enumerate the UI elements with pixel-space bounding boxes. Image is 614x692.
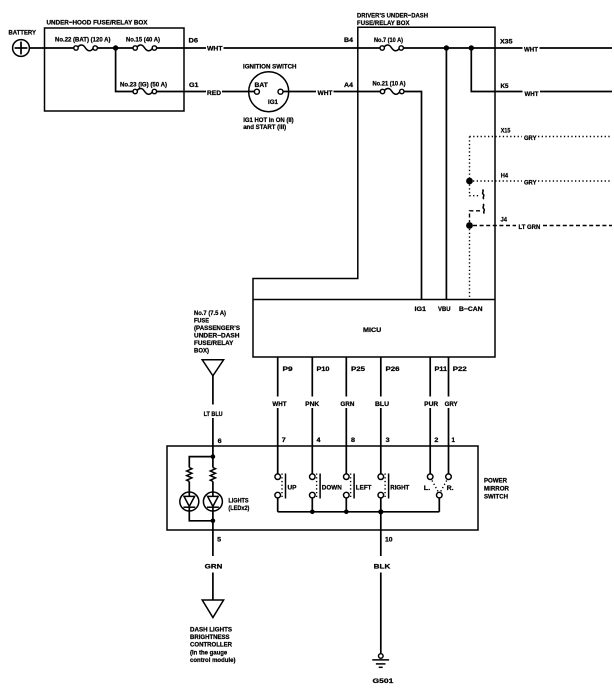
svg-text:No.21 (10 A): No.21 (10 A) (373, 81, 406, 88)
svg-text:WHT: WHT (272, 401, 286, 408)
wire battery to under-hood box (29, 47, 74, 49)
svg-text:WHT: WHT (525, 91, 539, 98)
svg-text:(LEDx2): (LEDx2) (228, 505, 249, 512)
svg-text:J4: J4 (501, 216, 508, 223)
svg-text:L.: L. (424, 485, 431, 492)
wire G1 to RED label (184, 91, 206, 93)
junction K5 tap (469, 45, 474, 50)
wire P9 output (277, 357, 279, 397)
svg-text:7: 7 (282, 437, 287, 444)
svg-text:P26: P26 (386, 366, 401, 373)
svg-text:PUR: PUR (424, 401, 438, 408)
svg-text:DOWN: DOWN (322, 485, 342, 492)
svg-text:FUSE/RELAY: FUSE/RELAY (194, 340, 234, 347)
svg-text:LIGHTS: LIGHTS (228, 497, 248, 504)
svg-text:P11: P11 (435, 366, 448, 373)
driver's under-dash fuse/relay box (outline merges with MICU section) (253, 13, 495, 358)
wire X15 GRY dotted to page edge (538, 136, 612, 138)
wire J4 LT GRN dashed to page edge (543, 225, 612, 227)
svg-text:D6: D6 (189, 38, 199, 45)
label POWER MIRROR SWITCH (484, 477, 509, 500)
wire dotted stub below H4 with break (470, 185, 481, 196)
svg-text:UNDER−DASH: UNDER−DASH (194, 333, 240, 340)
svg-text:R.: R. (447, 485, 454, 492)
svg-text:1: 1 (452, 437, 456, 444)
svg-text:LT BLU: LT BLU (204, 411, 223, 418)
wire LED right down (212, 507, 214, 521)
svg-text:BRIGHTNESS: BRIGHTNESS (190, 634, 230, 641)
wire RED to ignition switch BAT terminal (222, 91, 255, 93)
svg-text:G501: G501 (373, 678, 394, 685)
wire RIGHT bottom to bus (380, 498, 382, 512)
wire fuse23 to box edge (157, 91, 184, 93)
power mirror switch box (167, 446, 478, 530)
svg-text:(PASSENGER’S: (PASSENGER’S (194, 325, 240, 332)
wire DOWN bottom to bus (311, 498, 313, 512)
svg-text:IG1: IG1 (415, 306, 427, 313)
switch L/R selector (424, 474, 454, 498)
svg-text:POWER: POWER (484, 477, 507, 484)
switch RIGHT (378, 474, 409, 499)
fuse No.21 (10 A) (373, 81, 406, 95)
svg-text:UNDER−HOOD FUSE/RELAY BOX: UNDER−HOOD FUSE/RELAY BOX (47, 20, 149, 27)
wire fuse21 to IG1 input (404, 92, 422, 300)
svg-text:DASH LIGHTS: DASH LIGHTS (190, 626, 232, 633)
switch UP (275, 474, 297, 499)
wire pin 10 drop (380, 512, 382, 556)
junction lamp return (211, 519, 216, 524)
fuse No.15 (40 A) (126, 37, 160, 51)
label LIGHTS (LEDx2) (228, 497, 249, 512)
svg-text:MICU: MICU (363, 327, 382, 334)
label DASH LIGHTS BRIGHTNESS CONTROLLER (190, 626, 236, 664)
LED left (180, 492, 199, 511)
svg-text:10: 10 (385, 537, 393, 544)
svg-text:control module): control module) (190, 657, 236, 664)
svg-text:H4: H4 (501, 172, 509, 179)
svg-text:BATTERY: BATTERY (9, 30, 37, 37)
wire common bus (278, 511, 440, 513)
terminal IG1 (278, 89, 283, 94)
svg-text:FUSE/RELAY BOX: FUSE/RELAY BOX (357, 20, 410, 27)
svg-text:WHT: WHT (524, 47, 538, 54)
break squiggle lower (483, 204, 484, 214)
svg-text:BLK: BLK (374, 563, 391, 570)
svg-text:LEFT: LEFT (356, 485, 372, 492)
svg-text:X15: X15 (501, 128, 511, 135)
wire pin10 to ground (380, 573, 382, 654)
svg-text:IGNITION SWITCH: IGNITION SWITCH (243, 64, 297, 71)
wire WHT to driver's box B4 (224, 47, 358, 49)
svg-text:DRIVER’S UNDER−DASH: DRIVER’S UNDER−DASH (357, 13, 428, 20)
wire X35 WHT to page edge (540, 47, 613, 49)
wire P22 output (448, 357, 450, 397)
wire fuse15 to box edge (157, 47, 184, 49)
svg-text:P25: P25 (351, 366, 366, 373)
svg-text:MIRROR: MIRROR (484, 485, 509, 492)
wire B4 box edge to fuse7 (358, 47, 380, 49)
wire right lamp branch (212, 457, 214, 468)
fuse No.22 (BAT) (120 A) (55, 37, 111, 51)
junction J4 (466, 222, 473, 229)
wire UP bottom to bus (277, 498, 279, 512)
battery BATTERY (9, 30, 37, 57)
svg-text:IG1 HOT in ON (II): IG1 HOT in ON (II) (243, 117, 294, 124)
wire IG1 terminal to WHT label (283, 91, 316, 93)
svg-text:RED: RED (207, 90, 221, 97)
ignition switch (243, 64, 297, 132)
wire dashed stub above J4 (470, 211, 481, 222)
svg-text:GRN: GRN (340, 401, 354, 408)
svg-text:P10: P10 (317, 366, 331, 373)
resistor (right lamp) (210, 468, 215, 482)
wire pin 5 drop (212, 521, 214, 556)
junction bus at LEFT (344, 510, 349, 515)
svg-text:B−CAN: B−CAN (459, 306, 483, 313)
junction node (feed to No.23) (113, 45, 118, 50)
svg-text:3: 3 (386, 437, 391, 444)
svg-text:RIGHT: RIGHT (390, 485, 409, 492)
junction bus at pin 10 (378, 509, 383, 514)
op-amp MICU terminals (363, 306, 483, 334)
resistor (left lamp) (187, 468, 192, 482)
LED right (203, 492, 222, 511)
break squiggle upper (483, 190, 484, 200)
svg-text:BOX): BOX) (194, 348, 209, 355)
wire LT BLU from triangle to switch pin 6 (212, 376, 214, 405)
wire J4 dashed to LT GRN label (473, 225, 516, 227)
wire K5 branch (471, 48, 495, 92)
wire selector common to bus (438, 498, 440, 512)
svg-text:(In the gauge: (In the gauge (190, 649, 228, 656)
wire K5 WHT to page edge (540, 91, 612, 93)
wire B-CAN dotted drop to MICU (469, 229, 471, 300)
wire P26 output (380, 357, 382, 397)
wire H4 dotted to GRY label (473, 180, 522, 182)
wire LEFT bottom to bus (345, 498, 347, 512)
svg-text:GRY: GRY (524, 179, 537, 186)
junction pin6 split (211, 454, 216, 459)
junction VBU tap (444, 45, 449, 50)
wire LED left to junction (189, 507, 213, 521)
wire fuse7 to X35 exit (403, 47, 522, 49)
fuse No.7 (10 A) (374, 37, 403, 51)
connector triangle (to dash lights controller) (202, 600, 223, 618)
connector triangle (fuse feed) (202, 360, 223, 376)
svg-text:P22: P22 (453, 366, 468, 373)
switch DOWN (310, 474, 343, 499)
svg-text:GRY: GRY (524, 135, 537, 142)
svg-text:5: 5 (217, 536, 221, 543)
wire D6 to WHT label (184, 47, 206, 49)
svg-text:P9: P9 (283, 366, 294, 373)
wire A4 box edge to fuse21 (358, 91, 381, 93)
svg-text:4: 4 (317, 437, 322, 444)
wire H4 GRY dotted to page edge (538, 180, 612, 182)
svg-text:CONTROLLER: CONTROLLER (190, 642, 232, 649)
svg-text:PNK: PNK (305, 401, 319, 408)
svg-text:No.15 (40 A): No.15 (40 A) (126, 37, 160, 44)
svg-text:FUSE: FUSE (194, 318, 209, 325)
svg-text:VBU: VBU (438, 306, 451, 313)
svg-text:No.7 (10 A): No.7 (10 A) (374, 37, 403, 44)
switch LEFT (344, 474, 372, 499)
wire P25 output (345, 357, 347, 397)
svg-text:B4: B4 (344, 37, 353, 44)
svg-text:6: 6 (218, 438, 222, 445)
wire resistor to LED right (212, 481, 214, 496)
svg-text:A4: A4 (344, 82, 353, 89)
wire LT BLU lower part (212, 418, 214, 457)
svg-text:WHT: WHT (318, 90, 333, 97)
svg-text:and START (III): and START (III) (243, 124, 286, 131)
wire fuse22 to fuse15 with junction (97, 47, 133, 49)
terminal BAT (254, 89, 259, 94)
wire P10 output (311, 357, 313, 397)
svg-text:LT GRN: LT GRN (519, 224, 541, 231)
wire pin5 to dash controller triangle (212, 573, 214, 601)
wire drop from junction to No.23 row (116, 48, 133, 92)
MICU divider line (253, 299, 495, 301)
wire resistor to LED left (188, 481, 190, 496)
svg-text:No.23 (IG) (50 A): No.23 (IG) (50 A) (120, 82, 167, 89)
fuse No.23 (IG) (50 A) (120, 82, 167, 95)
wire WHT to driver's box A4 (334, 91, 358, 93)
svg-text:IG1: IG1 (268, 99, 278, 106)
svg-text:GRY: GRY (445, 401, 459, 408)
svg-text:WHT: WHT (207, 45, 223, 52)
svg-text:BAT: BAT (255, 82, 268, 89)
svg-text:2: 2 (434, 437, 439, 444)
svg-text:GRN: GRN (205, 563, 223, 570)
ground G501 (372, 654, 394, 685)
under-hood fuse/relay box (45, 20, 185, 112)
svg-text:UP: UP (288, 485, 297, 492)
wire B-CAN dotted riser (X15 tap to H4) (469, 137, 471, 182)
svg-text:X35: X35 (500, 39, 513, 46)
wire to left lamp branch (189, 457, 213, 468)
svg-text:G1: G1 (189, 82, 199, 89)
wire VBU vertical (445, 48, 447, 300)
svg-text:SWITCH: SWITCH (484, 494, 508, 501)
svg-text:8: 8 (351, 437, 356, 444)
svg-text:BLU: BLU (375, 401, 389, 408)
wire P11 output (429, 357, 431, 397)
svg-text:K5: K5 (501, 83, 509, 90)
svg-text:No.22 (BAT) (120 A): No.22 (BAT) (120 A) (55, 37, 111, 44)
wire X15 dotted to GRY label (470, 136, 523, 138)
fuse No.7 (7.5 A) passenger's box note (194, 310, 240, 355)
junction H4 (466, 178, 473, 185)
wire K5 exit (495, 91, 523, 93)
junction bus at DOWN (310, 510, 315, 515)
svg-text:No.7 (7.5 A): No.7 (7.5 A) (194, 310, 226, 317)
